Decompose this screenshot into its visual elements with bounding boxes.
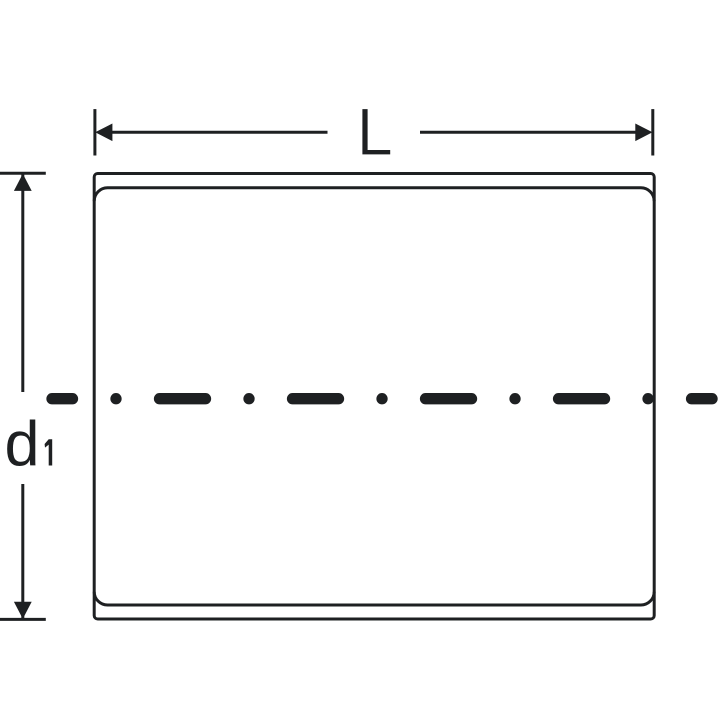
dimension L line left segment: [108, 131, 328, 134]
centerline (dash-dot axis): [52, 393, 713, 404]
sleeve inner edge top: [94, 188, 654, 201]
dimension L arrowhead left: [95, 124, 112, 142]
dimension d1 extension tick bottom: [0, 618, 46, 621]
dimension L extension tick right: [651, 109, 654, 155]
sleeve inner edge bottom: [94, 592, 654, 605]
svg-text:d: d: [5, 409, 40, 479]
dimension label L: [362, 109, 390, 154]
dimension d1 line upper segment: [21, 175, 24, 393]
dimension L arrowhead right: [635, 124, 652, 142]
dimension label d1 subscript 1: [45, 439, 53, 465]
dimension d1 arrowhead top: [14, 174, 32, 191]
dimension L extension tick left: [93, 109, 96, 155]
dimension L line right segment: [420, 131, 640, 134]
dimension d1 line lower segment: [21, 484, 24, 618]
dimension d1 extension tick top: [0, 172, 46, 175]
dimension d1 arrowhead bottom: [14, 602, 32, 619]
sleeve body outer outline: [94, 174, 654, 620]
